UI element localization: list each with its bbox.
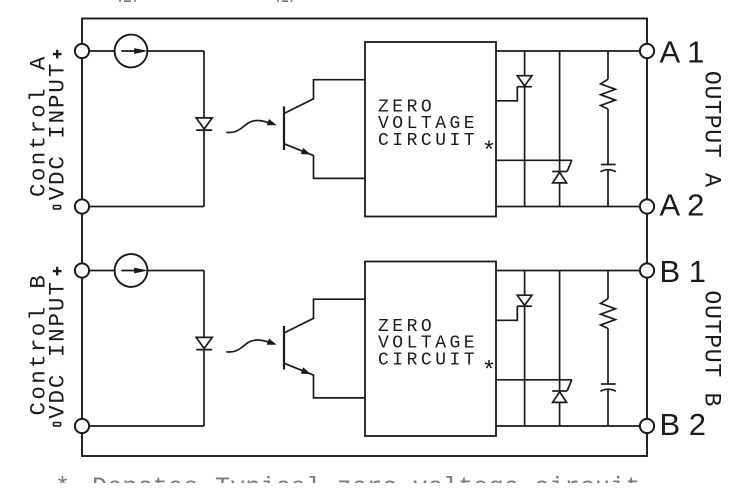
SCR Q1b gate wire [496,159,572,161]
minus square input polarity [53,206,60,209]
svg-text:OUTPUT B: OUTPUT B [699,290,725,407]
wire LED branch upper segment [203,51,205,118]
svg-text:B 1: B 1 [660,254,707,289]
svg-text:OUTPUT A: OUTPUT A [699,71,725,188]
snubber branch wire upper [607,271,609,299]
svg-text:B 2: B 2 [660,407,707,442]
wire input bottom (terminal A- to LED branch) [82,206,204,208]
phototransistor Q1 base bar [283,106,285,150]
terminal A2 output [640,199,654,213]
snubber branch wire upper [607,51,609,79]
SCR Q1a branch wire upper [524,51,526,76]
SCR Q2a branch wire upper [524,271,526,296]
svg-text:A 1: A 1 [660,35,705,70]
terminal A+ input [75,44,89,58]
SCR Q2a gate wire [496,306,517,320]
terminal B+ input [75,263,89,277]
terminal B- input [75,419,89,433]
svg-text:*: * [482,359,496,386]
terminal A1 output [640,44,654,58]
resistor R1 [601,79,616,109]
svg-text:A 2: A 2 [660,188,705,223]
light coupling arrow [226,121,269,133]
terminal B1 output [640,263,654,277]
svg-text:*: * [55,473,70,483]
wire input top (terminal B+ to LED branch) [82,270,204,272]
minus square input polarity [53,423,60,426]
SCR Q2a branch wire lower [524,306,526,426]
plus sign input polarity [53,270,62,272]
SCR Q2b branch wire upper [559,271,561,392]
zero voltage circuit block U1 [365,42,496,217]
svg-text:Typical zero voltage circuit: Typical zero voltage circuit [215,473,641,483]
svg-text:VDC INPUT: VDC INPUT [45,62,71,201]
wire output top (block to terminal B1) [496,270,647,272]
terminal B2 output [640,419,654,433]
snubber branch wire lower [607,389,609,426]
wire LED branch lower segment [203,350,205,427]
capacitor C2 [601,383,616,385]
SCR Q2b (anode down) [552,390,567,392]
wire output top (block to terminal A1) [496,50,647,52]
wire LED branch upper segment [203,271,205,338]
svg-text:CIRCUIT: CIRCUIT [378,131,478,151]
wire resistor to capacitor [607,109,609,164]
SCR Q1a branch wire lower [524,87,526,207]
LED D1 (optocoupler emitter diode) [196,118,212,129]
zero voltage circuit block U2 [365,262,496,437]
terminal A- input [75,199,89,213]
phototransistor Q2 collector lead [285,299,366,333]
svg-text:*: * [482,139,496,166]
svg-text:Denotes: Denotes [92,473,198,483]
current source CS2 [115,254,148,287]
phototransistor Q1 emitter lead with arrow [285,144,366,179]
SCR Q1b branch wire upper [559,51,561,172]
LED D2 (optocoupler emitter diode) [196,337,212,348]
SCR Q1a gate wire [496,87,517,101]
phototransistor Q1 collector lead [285,80,366,114]
capacitor C1 [601,164,616,166]
light coupling arrow [226,340,269,352]
wire LED branch lower segment [203,130,205,207]
wire output bottom (block to terminal A2) [496,206,647,208]
cropped text remnant top middle [278,0,292,2]
SCR Q2b branch wire lower [559,402,561,426]
phototransistor Q2 base bar [283,326,285,370]
outer package border [82,19,647,457]
resistor R2 [601,299,616,329]
wire input bottom (terminal B- to LED branch) [82,425,204,427]
current source CS1 [115,35,148,68]
svg-text:CIRCUIT: CIRCUIT [378,350,478,370]
svg-text:VDC INPUT: VDC INPUT [45,280,71,419]
plus sign input polarity [53,53,62,55]
SCR Q1b branch wire lower [559,183,561,207]
SCR Q1b (anode down) [552,171,567,173]
wire output bottom (block to terminal B2) [496,425,647,427]
SCR Q2b gate wire [496,379,572,381]
SCR Q2a (anode up) [517,295,532,305]
phototransistor Q2 emitter lead with arrow [285,363,366,398]
SCR Q1a (anode up) [517,76,532,86]
cropped text remnant top left [120,0,135,2]
snubber branch wire lower [607,170,609,207]
wire input top (terminal A+ to LED branch) [82,50,204,52]
wire resistor to capacitor [607,329,609,384]
